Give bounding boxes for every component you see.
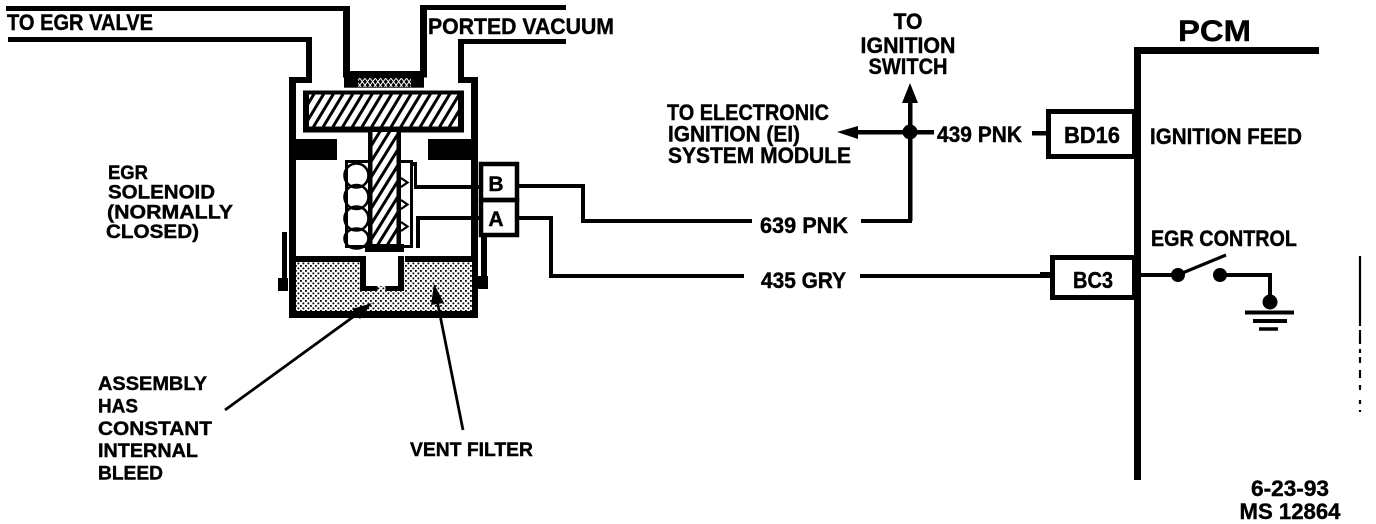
wire: 435 GRY right segment [860, 274, 1050, 278]
switch contact dot 2 [1213, 268, 1227, 282]
bleed dashed opening [366, 286, 378, 291]
dashed page-edge line [1359, 256, 1361, 412]
solenoid plunger foot [365, 244, 404, 252]
solenoid casing left wall [289, 77, 296, 318]
svg-text:VENT FILTER: VENT FILTER [410, 440, 533, 461]
solenoid seal (crosshatched) [344, 77, 424, 88]
svg-text:B: B [488, 173, 503, 196]
solenoid casing neck cap [343, 71, 427, 78]
solenoid inner bottom shelf left [296, 256, 366, 262]
ground symbol [1245, 313, 1294, 330]
vent filter stipple [296, 262, 472, 311]
solenoid left pole block [290, 139, 337, 160]
terminal A box [481, 200, 517, 235]
bleed notch right wall [398, 256, 404, 291]
svg-text:439 PNK: 439 PNK [937, 122, 1022, 147]
svg-text:BC3: BC3 [1073, 267, 1113, 293]
junction node dot [903, 125, 918, 140]
wire: 435 GRY into BC3 [1040, 272, 1050, 276]
svg-text:IGNITION FEED: IGNITION FEED [1150, 124, 1302, 149]
svg-text:A: A [488, 208, 503, 231]
solenoid armature (hatched cap) [303, 91, 464, 133]
right mounting bracket (below terminal A) [474, 237, 488, 289]
PCM connector BD16 box [1049, 112, 1135, 157]
solenoid casing top-left stub [289, 77, 312, 83]
leader arrow: vent filter [431, 284, 463, 430]
solenoid inner bottom shelf right [405, 256, 472, 262]
PCM connector BC3 box [1053, 258, 1135, 298]
wire: terminal B to 639 PNK [517, 184, 752, 223]
wire: 639 PNK right segment [861, 219, 912, 223]
svg-text:PCM: PCM [1178, 15, 1251, 48]
PCM boundary vertical line [1134, 47, 1141, 480]
svg-text:BD16: BD16 [1064, 122, 1120, 148]
wire: coil to terminal A [416, 216, 479, 248]
terminal B box [481, 164, 517, 200]
wire: BC3 to switch contact [1141, 273, 1178, 277]
svg-text:639 PNK: 639 PNK [760, 213, 848, 238]
switch contact dot 1 [1171, 268, 1185, 282]
wire: coil to terminal B [413, 162, 479, 189]
wire: TO EGR VALVE pipe bottom line [8, 37, 312, 83]
svg-text:PORTED VACUUM: PORTED VACUUM [428, 14, 614, 39]
solenoid casing top-right stub [458, 77, 478, 83]
svg-text:TO EGR VALVE: TO EGR VALVE [7, 10, 153, 35]
wire: PORTED VACUUM pipe bottom line [458, 39, 566, 83]
solenoid spring right-side loop tips [401, 178, 408, 231]
solenoid coil bobbin outline [347, 162, 412, 247]
leader arrow: assembly bleed [225, 303, 372, 410]
svg-text:6-23-93: 6-23-93 [1251, 476, 1329, 501]
solenoid plunger stem (hatched) [368, 132, 401, 248]
wire: junction to 439 PNK [916, 130, 934, 135]
solenoid right pole block [428, 139, 478, 160]
solenoid spring coil loops [345, 164, 369, 249]
wire: switch to ground [1220, 273, 1272, 300]
PCM boundary top line [1134, 47, 1319, 54]
bleed notch left wall [360, 256, 366, 291]
svg-text:EGR CONTROL: EGR CONTROL [1151, 226, 1297, 251]
left mounting bracket [278, 232, 288, 291]
solenoid casing bottom bar [289, 311, 478, 318]
wire: dash before BD16 [1032, 131, 1046, 136]
wire: terminal A to 435 GRY [517, 216, 744, 278]
wire: PORTED VACUUM pipe top line [420, 5, 566, 71]
svg-text:435 GRY: 435 GRY [761, 268, 846, 293]
ground node dot [1263, 295, 1278, 310]
svg-text:MS 12864: MS 12864 [1240, 499, 1342, 524]
switch lever [1180, 255, 1226, 274]
solenoid casing right wall [471, 77, 478, 318]
wire: left arrow to EI module [855, 130, 910, 135]
wire: TO EGR VALVE pipe top line [6, 6, 350, 71]
wire: vertical to ignition switch with up arrow [908, 99, 913, 221]
